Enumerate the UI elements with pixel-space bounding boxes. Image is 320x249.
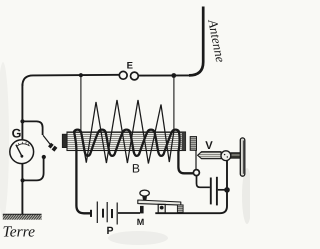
coil B left end cap: [62, 134, 67, 147]
svg-text:B: B: [132, 161, 140, 175]
wire: thin drop from top bus to coil secondary (left): [80, 75, 82, 131]
coil B core cylinder: [67, 132, 186, 151]
detector V: ball: [221, 151, 231, 161]
capacitor: right plate lead: [218, 189, 225, 191]
wire: coil tab down to open terminal: [195, 151, 197, 170]
wire: top bus right section (antenna side of spark gap): [138, 74, 192, 76]
switch S lower contact: [42, 155, 46, 159]
galvanometer G needle: [16, 145, 22, 157]
key M knob stem: [142, 196, 147, 200]
coil B right terminal tab: [190, 137, 196, 151]
svg-text:E: E: [127, 61, 133, 72]
detector V: link to handle: [231, 153, 241, 159]
node: open terminal (primary/detector/capacitor): [193, 170, 199, 176]
galvanometer G pivot: [21, 155, 24, 158]
coil B primary winding (spiral) with lead to battery: [74, 130, 193, 214]
galvanometer G body: [10, 140, 34, 164]
wire: battery to key front contact: [118, 212, 140, 214]
node: top bus / right secondary lead junction: [171, 73, 176, 78]
spark gap E: right ball: [131, 72, 139, 80]
node: bypass branch top junction: [20, 119, 24, 123]
wire: top bus left section (ground side of spark gap): [22, 75, 119, 86]
key M pivot housing: [158, 204, 165, 213]
svg-text:G: G: [12, 126, 22, 140]
wire: key base to capacitor/detector riser: [155, 161, 227, 214]
switch S plug handle: [48, 143, 57, 152]
coil B secondary winding (zigzag): [81, 100, 174, 164]
wire: left main wire from top bus corner down to galvanometer: [21, 84, 23, 140]
wire: bypass upper branch to switch: [23, 121, 43, 135]
key M front contact post: [140, 206, 144, 214]
wire: bypass lower branch: [23, 157, 44, 180]
key M knob: [140, 190, 149, 196]
key M lever: [138, 200, 181, 205]
battery P plates: [91, 202, 117, 225]
node: top bus / left secondary lead junction: [79, 73, 83, 77]
wire: antenna lead down to top bus: [189, 7, 203, 76]
earth electrode (hatched bar): [3, 214, 42, 220]
detector V: handle bar: [240, 138, 245, 176]
svg-text:P: P: [107, 225, 114, 237]
key M back contact spring s: [177, 205, 183, 213]
svg-text:Terre: Terre: [3, 224, 36, 241]
switch S knife blade: [43, 135, 51, 146]
galvanometer G scale arc: [16, 144, 29, 147]
spark gap E: left ball: [119, 71, 127, 79]
detector V: pointed tube: [198, 152, 221, 159]
node: capacitor / riser junction: [224, 187, 230, 193]
svg-text:V: V: [205, 140, 213, 152]
node: bypass branch bottom junction: [21, 178, 25, 182]
svg-text:M: M: [137, 217, 145, 227]
wire: left main wire from galvanometer down to earth: [21, 163, 23, 214]
capacitor plates: [210, 178, 212, 205]
wire: thin drop from top bus to coil secondary (right): [173, 76, 175, 132]
capacitor: left plate lead: [197, 176, 210, 187]
